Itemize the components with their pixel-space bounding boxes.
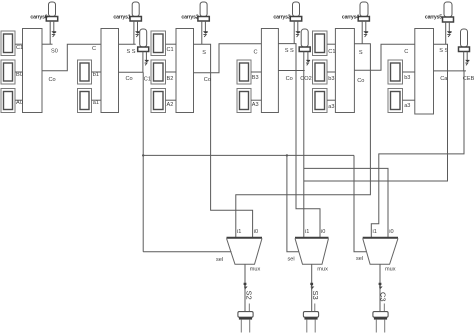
svg-text:i1: i1 — [237, 229, 241, 235]
arrow on carrys3 stem — [295, 31, 300, 34]
input pad B2 — [151, 60, 166, 84]
output pad S2 — [238, 304, 253, 333]
wire pad a3c to U5 — [327, 99, 335, 101]
svg-text:sel: sel — [216, 257, 223, 263]
svg-text:carrys0: carrys0 — [30, 15, 47, 21]
node junction sel mux2 — [286, 154, 288, 156]
svg-text:a3: a3 — [328, 104, 334, 110]
wire pad b1 to U2 — [92, 71, 102, 73]
input pad A2 — [151, 89, 166, 113]
svg-text:CO2: CO2 — [300, 76, 312, 82]
svg-text:C1: C1 — [16, 45, 23, 51]
svg-text:carrys5: carrys5 — [425, 15, 442, 21]
svg-text:S S: S S — [285, 48, 294, 54]
svg-text:mux: mux — [385, 267, 396, 273]
svg-text:carrys1: carrys1 — [113, 15, 130, 21]
full-adder U2 — [101, 29, 119, 113]
wire pad b3a to U4 — [251, 71, 261, 73]
svg-text:Co: Co — [357, 78, 364, 84]
output pad carrys4 — [358, 2, 369, 21]
input pad a3a — [237, 89, 251, 113]
svg-text:S0: S0 — [51, 49, 58, 55]
svg-text:S: S — [202, 50, 206, 56]
wire U5 S to mux1 i1 — [236, 44, 371, 238]
svg-text:carrys3: carrys3 — [273, 15, 290, 21]
svg-text:C3: C3 — [379, 292, 388, 302]
wire U6 S to mux2 i1 — [304, 44, 448, 181]
arrow on carrys5 stem — [447, 31, 452, 34]
output pad carrys5 — [443, 2, 454, 22]
arrow on CO2 stem — [306, 60, 310, 62]
wire U3 S to mux1 i0 — [194, 44, 253, 237]
wire U3 Co to U4 C — [194, 44, 262, 73]
svg-text:C1: C1 — [328, 49, 335, 55]
svg-text:Ca: Ca — [440, 76, 448, 82]
wire pin C1 stem — [143, 52, 147, 73]
svg-text:carrys2: carrys2 — [181, 15, 198, 21]
wire pad a1 to U2 — [92, 99, 102, 101]
svg-text:mux: mux — [317, 267, 328, 273]
wire pin carrys4 stem — [362, 21, 366, 44]
output pad C3 — [373, 304, 388, 333]
svg-text:S2: S2 — [245, 291, 254, 300]
wire S0 of U1 — [42, 43, 53, 45]
input pad b1 — [78, 60, 92, 84]
wire pin carrys5 stem — [446, 22, 450, 44]
full-adder U6 — [415, 29, 434, 115]
wire U6 Co to mux3 i1 — [371, 71, 464, 237]
arrow on mux2 output — [310, 283, 313, 286]
wire pad a3a to U4 — [251, 99, 261, 101]
wire U1 Co to U2 C — [42, 44, 101, 71]
input pad b3d — [388, 60, 403, 84]
svg-text:A0: A0 — [16, 100, 23, 106]
svg-text:i0: i0 — [321, 229, 325, 235]
svg-text:C: C — [254, 50, 258, 56]
input pad C1b — [151, 31, 166, 56]
input pad B0 — [1, 60, 15, 84]
wire pad A0 to U1 — [15, 99, 23, 101]
input pad A0 — [1, 89, 15, 113]
wire sel distribution horizontal — [143, 154, 354, 156]
wire pad C1 to U1 — [15, 43, 23, 45]
input pad b3c — [313, 60, 328, 84]
wire pad b3d to U6 — [403, 71, 415, 73]
arrow on carrys2 stem — [203, 31, 208, 34]
wire S of U2 — [119, 43, 136, 45]
input pad a3c — [313, 89, 328, 113]
svg-text:b3: b3 — [328, 76, 334, 82]
svg-text:sel: sel — [356, 256, 363, 262]
wire pin carrys2 stem — [202, 21, 206, 44]
svg-text:Co: Co — [286, 76, 293, 82]
full-adder U1 — [23, 29, 43, 113]
svg-text:a1: a1 — [93, 100, 99, 106]
wire U4 Co — [278, 70, 304, 72]
svg-text:A3: A3 — [252, 102, 259, 108]
node junction C1 sel — [142, 154, 144, 156]
svg-text:i0: i0 — [254, 229, 258, 235]
wire U2 Co — [119, 71, 144, 73]
output pad CEB — [459, 29, 470, 52]
mux M2 — [295, 238, 329, 265]
wire mux1 output — [244, 264, 246, 311]
svg-text:i1: i1 — [305, 229, 309, 235]
output pad carrys2 — [198, 2, 209, 21]
wire U6 Co — [434, 70, 467, 72]
wire pin carrys3 stem — [294, 21, 298, 44]
mux M3 — [363, 238, 398, 265]
svg-text:C: C — [404, 49, 408, 55]
svg-text:A2: A2 — [167, 102, 174, 108]
svg-text:a3: a3 — [404, 103, 410, 109]
wire mux3 output — [379, 264, 381, 311]
input pad b3a — [237, 60, 251, 84]
wire pin carrys1 stem — [134, 21, 138, 44]
full-adder U5 — [335, 29, 354, 113]
svg-text:carrys4: carrys4 — [342, 15, 359, 21]
wire net C1 vertical — [142, 72, 144, 252]
input pad a1 — [78, 89, 92, 113]
svg-text:i0: i0 — [389, 229, 393, 235]
arrow on carrys4 stem — [363, 31, 368, 34]
wire U5 Co to U6 C — [354, 44, 415, 70]
output pad carrys1 — [130, 2, 141, 21]
wire pad C1c to U5 — [327, 43, 335, 45]
svg-text:mux: mux — [250, 267, 261, 273]
svg-text:B3: B3 — [252, 75, 259, 81]
svg-text:S: S — [359, 50, 363, 56]
wire pin CO2 stem — [304, 52, 308, 71]
svg-text:C1: C1 — [167, 47, 174, 53]
arrow on carrys1 stem — [135, 31, 140, 34]
wire pad b3c to U5 — [327, 71, 335, 73]
input pad C1c — [313, 31, 328, 56]
wire U4 Co to mux3 i0 — [304, 71, 388, 238]
mux M1 — [227, 238, 263, 265]
output pad carrys0 — [46, 2, 57, 21]
wire pin CEB stem — [464, 52, 468, 71]
arrow on mux1 output — [244, 283, 247, 286]
svg-text:S3: S3 — [311, 291, 320, 300]
input pad a3d — [388, 89, 403, 113]
arrow on mux3 output — [379, 283, 382, 286]
svg-text:sel: sel — [288, 257, 295, 263]
svg-text:i1: i1 — [373, 229, 377, 235]
wire sel to mux1 — [143, 251, 231, 253]
output pad C1 — [138, 29, 149, 52]
output pad S3 — [303, 304, 318, 333]
svg-text:Co: Co — [204, 77, 211, 83]
svg-text:B0: B0 — [16, 72, 23, 78]
wire sel drop to mux2 — [287, 155, 299, 251]
arrow on CEB stem — [465, 60, 469, 62]
svg-text:b1: b1 — [93, 72, 99, 78]
svg-text:Co: Co — [49, 77, 56, 83]
full-adder U3 — [176, 29, 194, 113]
wire U4 S to mux2 i0 — [278, 44, 320, 238]
wire pad a3d to U6 — [403, 99, 415, 101]
output pad CO2 — [299, 29, 310, 52]
wire pad B2 to U3 — [166, 71, 177, 73]
wire mux2 output — [311, 264, 313, 311]
svg-text:S S: S S — [127, 49, 136, 55]
svg-text:C1: C1 — [144, 77, 151, 83]
wire pin carrys0 stem — [50, 21, 54, 44]
input pad C1 — [1, 31, 15, 56]
svg-text:b3: b3 — [404, 75, 410, 81]
svg-text:C: C — [92, 46, 96, 52]
svg-text:B2: B2 — [167, 76, 174, 82]
wire sel drop to mux3 — [354, 155, 366, 251]
arrow on C1 stem — [144, 60, 148, 62]
wire pad C1b to U3 — [166, 43, 177, 45]
output pad carrys3 — [290, 2, 301, 21]
wire pad A2 to U3 — [166, 99, 177, 101]
arrow on carrys0 stem — [51, 31, 56, 34]
svg-text:Co: Co — [126, 76, 133, 82]
full-adder U4 — [261, 29, 278, 113]
wire pad B0 to U1 — [15, 71, 23, 73]
